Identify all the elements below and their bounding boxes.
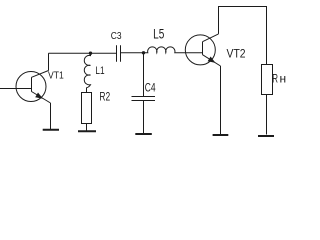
svg-text:L5: L5: [153, 27, 164, 42]
wire VT1 emitter down: [50, 103, 52, 129]
wire R2 to ground: [86, 124, 88, 131]
wire VT2 collector top rail: [219, 7, 267, 65]
ground under C4: [135, 133, 152, 135]
svg-text:VT2: VT2: [227, 46, 246, 60]
wire input to VT1 base: [0, 88, 32, 90]
ground under R2: [78, 130, 96, 132]
svg-text:R2: R2: [99, 91, 110, 103]
inductor L1: [84, 53, 90, 92]
svg-text:C3: C3: [111, 31, 122, 42]
capacitor C4: [132, 97, 156, 101]
wire VT1 collector up: [48, 53, 50, 70]
inductor L5: [144, 47, 203, 53]
ground under VT1: [43, 129, 59, 131]
svg-text:C4: C4: [145, 83, 156, 95]
transistor VT1: [16, 71, 51, 104]
wire Rн to ground: [266, 95, 268, 135]
svg-text:VT1: VT1: [48, 71, 64, 82]
wire VT2 emitter down: [220, 66, 222, 134]
svg-text:L1: L1: [95, 65, 104, 77]
ground under Rн: [258, 135, 274, 137]
svg-text:н: н: [280, 72, 287, 86]
capacitor C3: [117, 45, 121, 62]
resistor Rн: [262, 65, 273, 95]
wire node to C4: [143, 53, 145, 97]
transistor VT2: [185, 34, 220, 66]
node C4/L5 junction: [142, 51, 145, 54]
svg-text:R: R: [272, 72, 278, 86]
node L1 tap: [89, 52, 92, 55]
resistor R2: [82, 93, 92, 124]
wire C3 to node: [121, 52, 144, 54]
wire C4 to ground: [143, 101, 145, 134]
wire top rail left: [49, 52, 117, 54]
ground under VT2: [213, 134, 229, 136]
